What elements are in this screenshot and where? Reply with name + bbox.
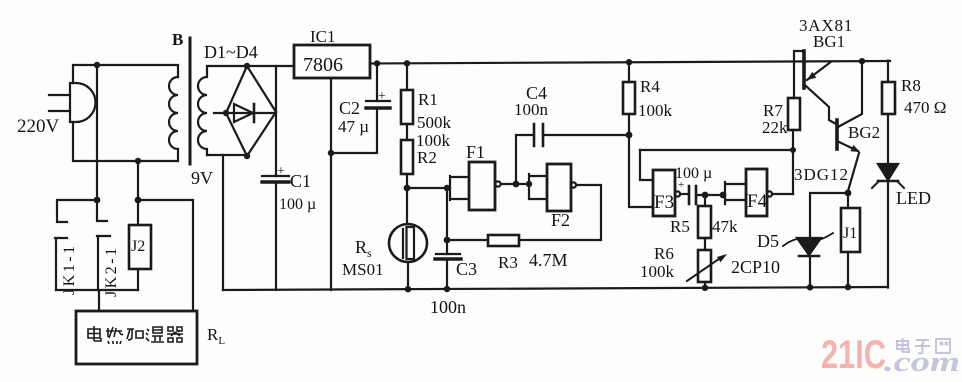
capacitor C4 100n xyxy=(516,124,629,184)
svg-text:21IC: 21IC xyxy=(821,333,886,377)
svg-text:MS01: MS01 xyxy=(342,260,384,279)
label 100u C1 xyxy=(279,196,316,213)
node on top mains wire xyxy=(94,62,100,68)
wire R4 node down to F3 lower input xyxy=(629,135,653,207)
rectifier bridge D1~D4 xyxy=(214,66,276,156)
svg-text:+: + xyxy=(277,164,285,179)
wire switch commons to heater xyxy=(56,290,138,311)
label 3AX81 xyxy=(799,16,853,35)
svg-text:500k: 500k xyxy=(417,113,452,132)
relay coil J2 xyxy=(129,200,151,290)
label R1 xyxy=(418,90,438,109)
svg-text:C3: C3 xyxy=(456,259,477,279)
node J1 on rail xyxy=(845,284,851,290)
wire emitter node to D5 xyxy=(810,193,848,238)
node feedback on R7 wire xyxy=(790,147,796,153)
label 100n C3 xyxy=(430,297,466,317)
node emitter junction xyxy=(845,190,852,197)
svg-text:3DG12: 3DG12 xyxy=(794,165,849,184)
svg-text:Rs: Rs xyxy=(355,237,372,260)
svg-text:D5: D5 xyxy=(757,231,779,251)
svg-text:+: + xyxy=(678,179,684,191)
node R4 tap on rail xyxy=(626,59,632,65)
wire feedback line to R7 node xyxy=(640,149,793,151)
transistor BG1 emitter xyxy=(807,62,831,80)
label 22k xyxy=(762,118,788,137)
capacitor C1 100u xyxy=(262,176,289,182)
label 100k R6 xyxy=(640,262,675,281)
wire B2 to heater right terminal xyxy=(138,200,193,311)
label heater chinese text xyxy=(88,326,183,344)
label 220V xyxy=(17,116,60,137)
resistor R8 470 xyxy=(882,61,895,165)
node R5 junction xyxy=(702,192,709,199)
node F1 output junction xyxy=(513,181,520,188)
svg-text:D1~D4: D1~D4 xyxy=(204,42,258,62)
label 4.7M xyxy=(529,250,568,270)
svg-text:R5: R5 xyxy=(670,217,690,236)
label C2 xyxy=(339,98,360,118)
svg-text:F1: F1 xyxy=(466,142,485,162)
label 47u xyxy=(338,117,369,136)
label D1~D4 xyxy=(204,42,258,62)
label Rs xyxy=(355,237,372,260)
label 47k xyxy=(712,217,738,236)
regulator IC1 7806 xyxy=(294,45,370,78)
humidity sensor Rs MS01 xyxy=(389,188,427,290)
node C4 to R4 junction xyxy=(626,132,633,139)
label 9V xyxy=(191,168,213,188)
node bridge top vertex xyxy=(244,63,250,69)
LED indicator xyxy=(872,164,904,288)
label RL xyxy=(207,325,225,347)
label F1 xyxy=(466,142,485,162)
heater load box RL xyxy=(76,311,197,364)
label R4 xyxy=(640,77,660,96)
node sensor on rail xyxy=(405,286,411,292)
node R1 tap on rail xyxy=(404,60,410,66)
node C3 on rail xyxy=(444,286,450,292)
svg-text:100n: 100n xyxy=(430,297,466,317)
svg-text:RL: RL xyxy=(207,325,225,347)
label C4 xyxy=(526,83,547,103)
svg-text:100k: 100k xyxy=(638,101,673,120)
transistor BG1 collector xyxy=(806,86,836,124)
wire R2 junction to F1 inputs xyxy=(407,187,450,189)
label J2 xyxy=(131,238,145,255)
node B2 xyxy=(135,197,142,204)
label JK2-1 xyxy=(103,245,120,297)
wire ground drop to bottom rail xyxy=(222,155,224,290)
capacitor C2 47u xyxy=(331,63,390,154)
label R5 xyxy=(670,217,690,236)
node F2 input junction xyxy=(526,181,532,187)
capacitor 100u coupling xyxy=(689,186,725,204)
node C3 branch xyxy=(444,185,450,191)
switch contact JK2-1 xyxy=(97,200,110,290)
svg-text:R2: R2 xyxy=(417,148,437,167)
svg-text:R6: R6 xyxy=(654,244,674,263)
transistor BG2 collector xyxy=(838,61,862,128)
label MS01 xyxy=(342,260,384,279)
label BG2 xyxy=(848,123,880,142)
potentiometer R6 100k xyxy=(687,250,727,289)
node C3 R3 junction xyxy=(444,237,451,244)
relay coil J1 xyxy=(841,193,860,288)
label C2 plus xyxy=(378,89,386,104)
gate F2 xyxy=(516,164,601,240)
node C2 tap on rail xyxy=(374,60,380,66)
svg-text:J2: J2 xyxy=(131,238,145,255)
svg-text:BG2: BG2 xyxy=(848,123,880,142)
node R6 on rail xyxy=(702,285,708,291)
transformer core xyxy=(189,38,192,164)
label 2CP10 xyxy=(731,257,780,277)
svg-text:47k: 47k xyxy=(712,217,738,236)
svg-text:LED: LED xyxy=(896,188,931,208)
svg-text:7806: 7806 xyxy=(303,54,343,76)
svg-text:2CP10: 2CP10 xyxy=(731,257,780,277)
svg-text:R3: R3 xyxy=(498,253,518,272)
resistor R1 500k xyxy=(401,63,413,125)
svg-text:R4: R4 xyxy=(640,77,660,96)
diode D5 xyxy=(783,233,833,288)
capacitor C3 100n xyxy=(435,188,461,290)
wire mains line A down xyxy=(96,65,98,200)
wire bottom rail xyxy=(223,287,888,290)
svg-text:22k: 22k xyxy=(762,118,788,137)
svg-text:JK1-1: JK1-1 xyxy=(61,243,78,295)
label R2 xyxy=(417,148,437,167)
wire IC1 ground lead xyxy=(330,78,332,290)
resistor R5 47k xyxy=(698,195,711,250)
label 500k xyxy=(417,113,452,132)
node bridge left vertex xyxy=(223,110,229,116)
label LED xyxy=(896,188,931,208)
svg-text:4.7M: 4.7M xyxy=(529,250,568,270)
svg-text:F4: F4 xyxy=(747,191,768,212)
wire F3 upper input from feedback line xyxy=(640,150,653,180)
label C1 xyxy=(290,171,311,191)
label F4 xyxy=(747,191,768,212)
label BG1 xyxy=(813,32,845,51)
svg-text:100 µ: 100 µ xyxy=(279,196,316,213)
svg-text:J1: J1 xyxy=(843,225,857,242)
wire secondary top to bridge and IC1 xyxy=(207,65,294,67)
svg-text:R8: R8 xyxy=(901,76,921,95)
resistor R7 22k xyxy=(788,51,804,130)
label R8 xyxy=(901,76,921,95)
resistor R3 4.7M xyxy=(447,235,519,246)
node bridge bottom vertex xyxy=(244,153,250,159)
gate F4 xyxy=(725,169,793,216)
svg-text:+: + xyxy=(378,89,386,104)
svg-text:470 Ω: 470 Ω xyxy=(904,98,946,117)
watermark 21IC logo xyxy=(821,333,960,378)
svg-text:F2: F2 xyxy=(551,210,570,230)
wire mains loop xyxy=(73,65,178,161)
node F4 input junction xyxy=(720,192,727,199)
svg-text:F3: F3 xyxy=(654,192,674,213)
node C2 ground junction xyxy=(328,150,334,156)
node on bottom mains wire xyxy=(135,158,141,164)
label F3 xyxy=(654,192,674,213)
transformer B primary winding xyxy=(169,77,178,149)
label 470 ohm xyxy=(904,98,946,117)
resistor R2 100k xyxy=(401,124,413,188)
label 3DG12 xyxy=(794,165,849,184)
label F2 xyxy=(551,210,570,230)
watermark chinese text xyxy=(897,338,950,353)
wire mains line B down xyxy=(137,161,139,200)
wire F4 output to R7 xyxy=(792,130,794,194)
svg-text:B: B xyxy=(172,30,183,49)
svg-text:100k: 100k xyxy=(640,262,675,281)
label R6 xyxy=(654,244,674,263)
wire bridge DC output to IC1 and C1 xyxy=(275,66,277,290)
label R7 xyxy=(763,101,783,120)
label C1 plus xyxy=(277,164,285,179)
label 100k R2 xyxy=(416,131,451,150)
label JK1-1 xyxy=(61,243,78,295)
gate F1 xyxy=(450,162,516,210)
resistor R4 100k xyxy=(623,62,635,136)
transformer secondary winding 9V xyxy=(198,67,207,155)
transistor BG1 3AX81 base bar xyxy=(802,51,806,88)
label 100n C4 xyxy=(514,100,549,119)
wire secondary bottom to bridge bottom vertex xyxy=(207,154,247,156)
node A2 xyxy=(94,197,101,204)
gate F3 xyxy=(653,170,689,216)
switch contact JK1-1 xyxy=(55,200,97,290)
node BG2 collector on rail xyxy=(859,58,865,64)
svg-text:47 µ: 47 µ xyxy=(338,117,369,136)
label C3 xyxy=(456,259,477,279)
svg-text:100n: 100n xyxy=(514,100,549,119)
label R3 xyxy=(498,253,518,272)
label 100k R4 xyxy=(638,101,673,120)
label IC1 xyxy=(310,27,336,46)
wire +6V top rail xyxy=(370,61,890,64)
transistor BG2 emitter xyxy=(839,142,860,191)
label B xyxy=(172,30,183,49)
label plus coupling xyxy=(678,179,684,191)
transistor BG2 3DG12 base bar xyxy=(835,120,839,149)
plug P 220V xyxy=(49,83,96,122)
label D5 xyxy=(757,231,779,251)
svg-text:C1: C1 xyxy=(290,171,311,191)
label 7806 xyxy=(303,54,343,76)
svg-text:BG1: BG1 xyxy=(813,32,845,51)
svg-text:JK2-1: JK2-1 xyxy=(103,245,120,297)
svg-text:R1: R1 xyxy=(418,90,438,109)
svg-text:9V: 9V xyxy=(191,168,213,188)
label J1 xyxy=(843,225,857,242)
node R2 bottom junction xyxy=(404,185,411,192)
svg-text:IC1: IC1 xyxy=(310,27,336,46)
svg-text:C2: C2 xyxy=(339,98,360,118)
node D5 on rail xyxy=(807,284,813,290)
svg-text:220V: 220V xyxy=(17,116,60,137)
label 100u coupling xyxy=(675,165,712,182)
